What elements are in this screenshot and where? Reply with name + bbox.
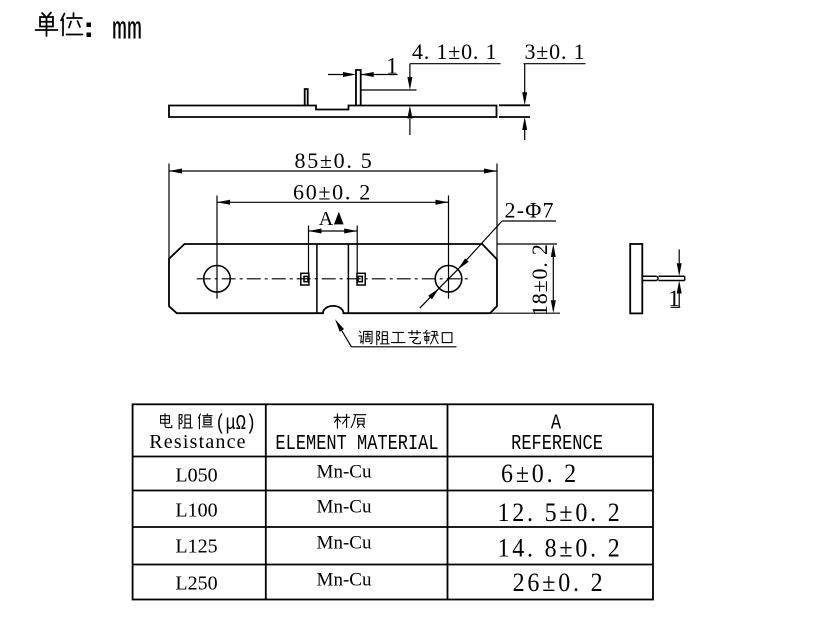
- svg-text:2-Φ7: 2-Φ7: [505, 198, 555, 223]
- svg-text:A: A: [319, 208, 334, 230]
- dim 3±0.1 leader and arrows: [523, 64, 585, 140]
- sense pin pad left (front view): [301, 273, 309, 285]
- notch leader arrowhead: [335, 319, 344, 331]
- top view right sense pin: [356, 70, 361, 106]
- svg-text:60±0. 2: 60±0. 2: [293, 180, 372, 205]
- leader 2-Φ7 arrowheads: [458, 258, 469, 269]
- horizontal centerline (dash-dot): [197, 278, 469, 280]
- svg-text:Resistance: Resistance: [149, 431, 247, 453]
- weld seam line right: [347, 244, 349, 313]
- svg-text:1: 1: [386, 54, 398, 79]
- hole right (Φ7): [435, 266, 462, 293]
- table grid: [133, 404, 653, 599]
- svg-text:1: 1: [668, 286, 680, 311]
- svg-text:REFERENCE: REFERENCE: [511, 431, 603, 455]
- svg-text:26±0. 2: 26±0. 2: [513, 569, 606, 597]
- svg-text:mm: mm: [112, 12, 142, 49]
- extension line from right pin top: [361, 89, 417, 91]
- label 调阻工艺缺口: [359, 331, 372, 344]
- svg-text:L250: L250: [175, 573, 217, 595]
- top view outline: [169, 106, 497, 118]
- side view bar: [630, 244, 642, 313]
- svg-text:85±0. 5: 85±0. 5: [295, 148, 374, 173]
- dim A extension and dimension lines: [309, 226, 358, 274]
- notch leader line: [342, 331, 457, 347]
- svg-text:Mn-Cu: Mn-Cu: [317, 570, 372, 591]
- sense pin pad right (front view): [357, 273, 365, 285]
- title char 位: [61, 13, 83, 36]
- svg-text:L125: L125: [175, 536, 217, 558]
- svg-text:L050: L050: [175, 465, 217, 487]
- svg-text:4. 1±0. 1: 4. 1±0. 1: [412, 39, 497, 64]
- title char 单: [36, 13, 58, 37]
- front view outline with chamfers and trimming notch: [169, 244, 497, 313]
- dim 4.1±0.1 leader and arrows: [410, 64, 501, 135]
- label A filled triangle: [334, 212, 344, 225]
- svg-text:Mn-Cu: Mn-Cu: [317, 462, 372, 483]
- title fullwidth colon: [87, 23, 92, 38]
- weld seam line left: [316, 244, 318, 313]
- dim 85±0.5 dimension line and extension lines: [169, 164, 497, 260]
- dim 1 (top view) arrowheads: [343, 72, 356, 77]
- svg-text:L100: L100: [175, 500, 217, 522]
- dim 18±0.2 extension and dimension lines: [490, 244, 560, 313]
- svg-text:18±0. 2: 18±0. 2: [527, 243, 552, 316]
- svg-text:3±0. 1: 3±0. 1: [525, 39, 586, 64]
- top view left sense pin: [305, 89, 308, 106]
- svg-text:12. 5±0. 2: 12. 5±0. 2: [497, 499, 622, 527]
- svg-text:6±0. 2: 6±0. 2: [501, 460, 579, 488]
- leader 2-Φ7 lines: [420, 221, 556, 308]
- top view right thin tab: [499, 105, 530, 117]
- svg-text:Mn-Cu: Mn-Cu: [317, 497, 372, 518]
- dim 60±0.2 dimension line and extension lines: [217, 196, 449, 299]
- hole left (Φ7): [204, 266, 231, 293]
- svg-text:ELEMENT MATERIAL: ELEMENT MATERIAL: [275, 431, 438, 455]
- header 电阻值: [161, 414, 172, 428]
- side view pins: [642, 276, 684, 280]
- svg-text:Mn-Cu: Mn-Cu: [317, 533, 372, 554]
- header 材质: [334, 414, 350, 428]
- svg-text:14. 8±0. 2: 14. 8±0. 2: [497, 535, 622, 563]
- dim 1 (side view) lines: [671, 249, 681, 307]
- dim 1 (pin width, top view) dimension lines: [328, 74, 398, 76]
